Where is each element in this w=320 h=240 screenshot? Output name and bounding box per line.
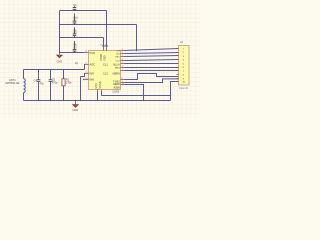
connector J1 box [179, 46, 190, 86]
wire net8 step [125, 74, 179, 80]
junction dots top section [59, 10, 137, 53]
svg-text:PON: PON [90, 51, 96, 55]
svg-text:MER0: MER0 [113, 71, 121, 75]
wire right pin7 [125, 70, 179, 72]
svg-text:270k: 270k [66, 81, 72, 85]
svg-text:MEU: MEU [115, 67, 120, 69]
wire top1 y=10.5 [60, 10, 107, 12]
IC pin labels right [113, 50, 121, 89]
svg-text:Conn 10: Conn 10 [179, 88, 188, 90]
svg-text:NO: NO [117, 53, 121, 55]
svg-text:C4: C4 [33, 79, 37, 83]
svg-text:47p: 47p [40, 81, 45, 85]
svg-text:CH: CH [117, 50, 121, 52]
wire top2 y=24.5 [60, 24, 137, 26]
wire right pin3 [125, 56, 179, 57]
antenna ANT1 [5, 70, 25, 101]
wire right pin5 [125, 63, 179, 65]
svg-text:VSSB: VSSB [99, 54, 103, 61]
capacitor C4 [33, 70, 44, 101]
ground GND left [56, 53, 63, 64]
wire net9 to bus2 [125, 79, 179, 83]
svg-text:C6: C6 [73, 3, 77, 7]
wire right pin1 [125, 49, 179, 51]
svg-text:INN: INN [90, 77, 95, 81]
svg-text:Vp: Vp [75, 61, 79, 65]
wire vertical x=136.5 to right pin1 net [136, 25, 138, 51]
svg-text:SEC: SEC [115, 56, 120, 58]
wire bottom bus2 y=100.5 [24, 100, 171, 102]
svg-text:VSSD: VSSD [98, 81, 102, 88]
svg-text:CL3: CL3 [103, 71, 108, 75]
wire left rail vertical [59, 11, 61, 54]
wire right pin2 [125, 53, 179, 54]
svg-text:470p: 470p [52, 81, 58, 85]
wire vertical x=106.5 to IC top pin 2 [106, 11, 108, 47]
junction dots bottom [38, 69, 171, 101]
wire net10 stub [125, 85, 144, 101]
svg-text:VSS: VSS [94, 83, 98, 88]
capacitor C6 [73, 3, 77, 11]
wire gnd riser to connector [171, 82, 179, 101]
svg-text:CL1: CL1 [103, 62, 108, 66]
capacitor C3 [73, 41, 78, 53]
svg-text:J1: J1 [180, 40, 183, 44]
wire right pin4 [125, 60, 179, 61]
wire vertical x=80.5 to bottom bus [80, 77, 82, 101]
wire chain bottom y=52.5 rail to IC [60, 52, 85, 54]
IC1 box [89, 51, 121, 90]
IC left pin stubs [84, 53, 88, 80]
svg-text:NLLA: NLLA [113, 62, 120, 66]
svg-text:12303: 12303 [112, 90, 120, 93]
IC1 name [85, 45, 124, 85]
svg-text:C2: C2 [73, 31, 77, 35]
wire vertical x=103.5 to IC top pin 1 [103, 38, 105, 47]
connector pin numbers [183, 48, 186, 83]
svg-text:C3: C3 [73, 45, 77, 49]
wire top3 y=37.5 [60, 37, 104, 39]
capacitor C2 [73, 27, 78, 37]
wire bottom-left rail y=69.5 [24, 69, 85, 71]
svg-text:15: 15 [100, 45, 102, 47]
svg-text:VDD: VDD [103, 55, 107, 61]
IC right pin stubs [121, 51, 125, 85]
wire right pin6 [125, 67, 179, 69]
svg-text:GND: GND [56, 59, 62, 63]
wire IC left pin2 jog [81, 74, 86, 77]
capacitor C1 [73, 14, 78, 25]
svg-text:INP: INP [90, 71, 95, 75]
wire IC left pin1 jog [84, 65, 87, 70]
svg-text:A2B0: A2B0 [113, 85, 120, 89]
wire bus1 y=95.5 [102, 95, 171, 97]
svg-text:GND: GND [72, 108, 78, 112]
connector pin marks [177, 49, 179, 82]
resistor R1 [62, 70, 72, 101]
ground GND bottom [72, 101, 79, 113]
svg-text:C1: C1 [73, 18, 77, 22]
svg-text:CLK: CLK [116, 60, 121, 62]
IC top pin stubs [104, 47, 107, 51]
capacitor C5 [49, 70, 58, 101]
IC bottom pin stubs [98, 90, 102, 93]
svg-text:AGC: AGC [90, 62, 96, 66]
svg-text:MA5532-AE: MA5532-AE [5, 81, 19, 85]
